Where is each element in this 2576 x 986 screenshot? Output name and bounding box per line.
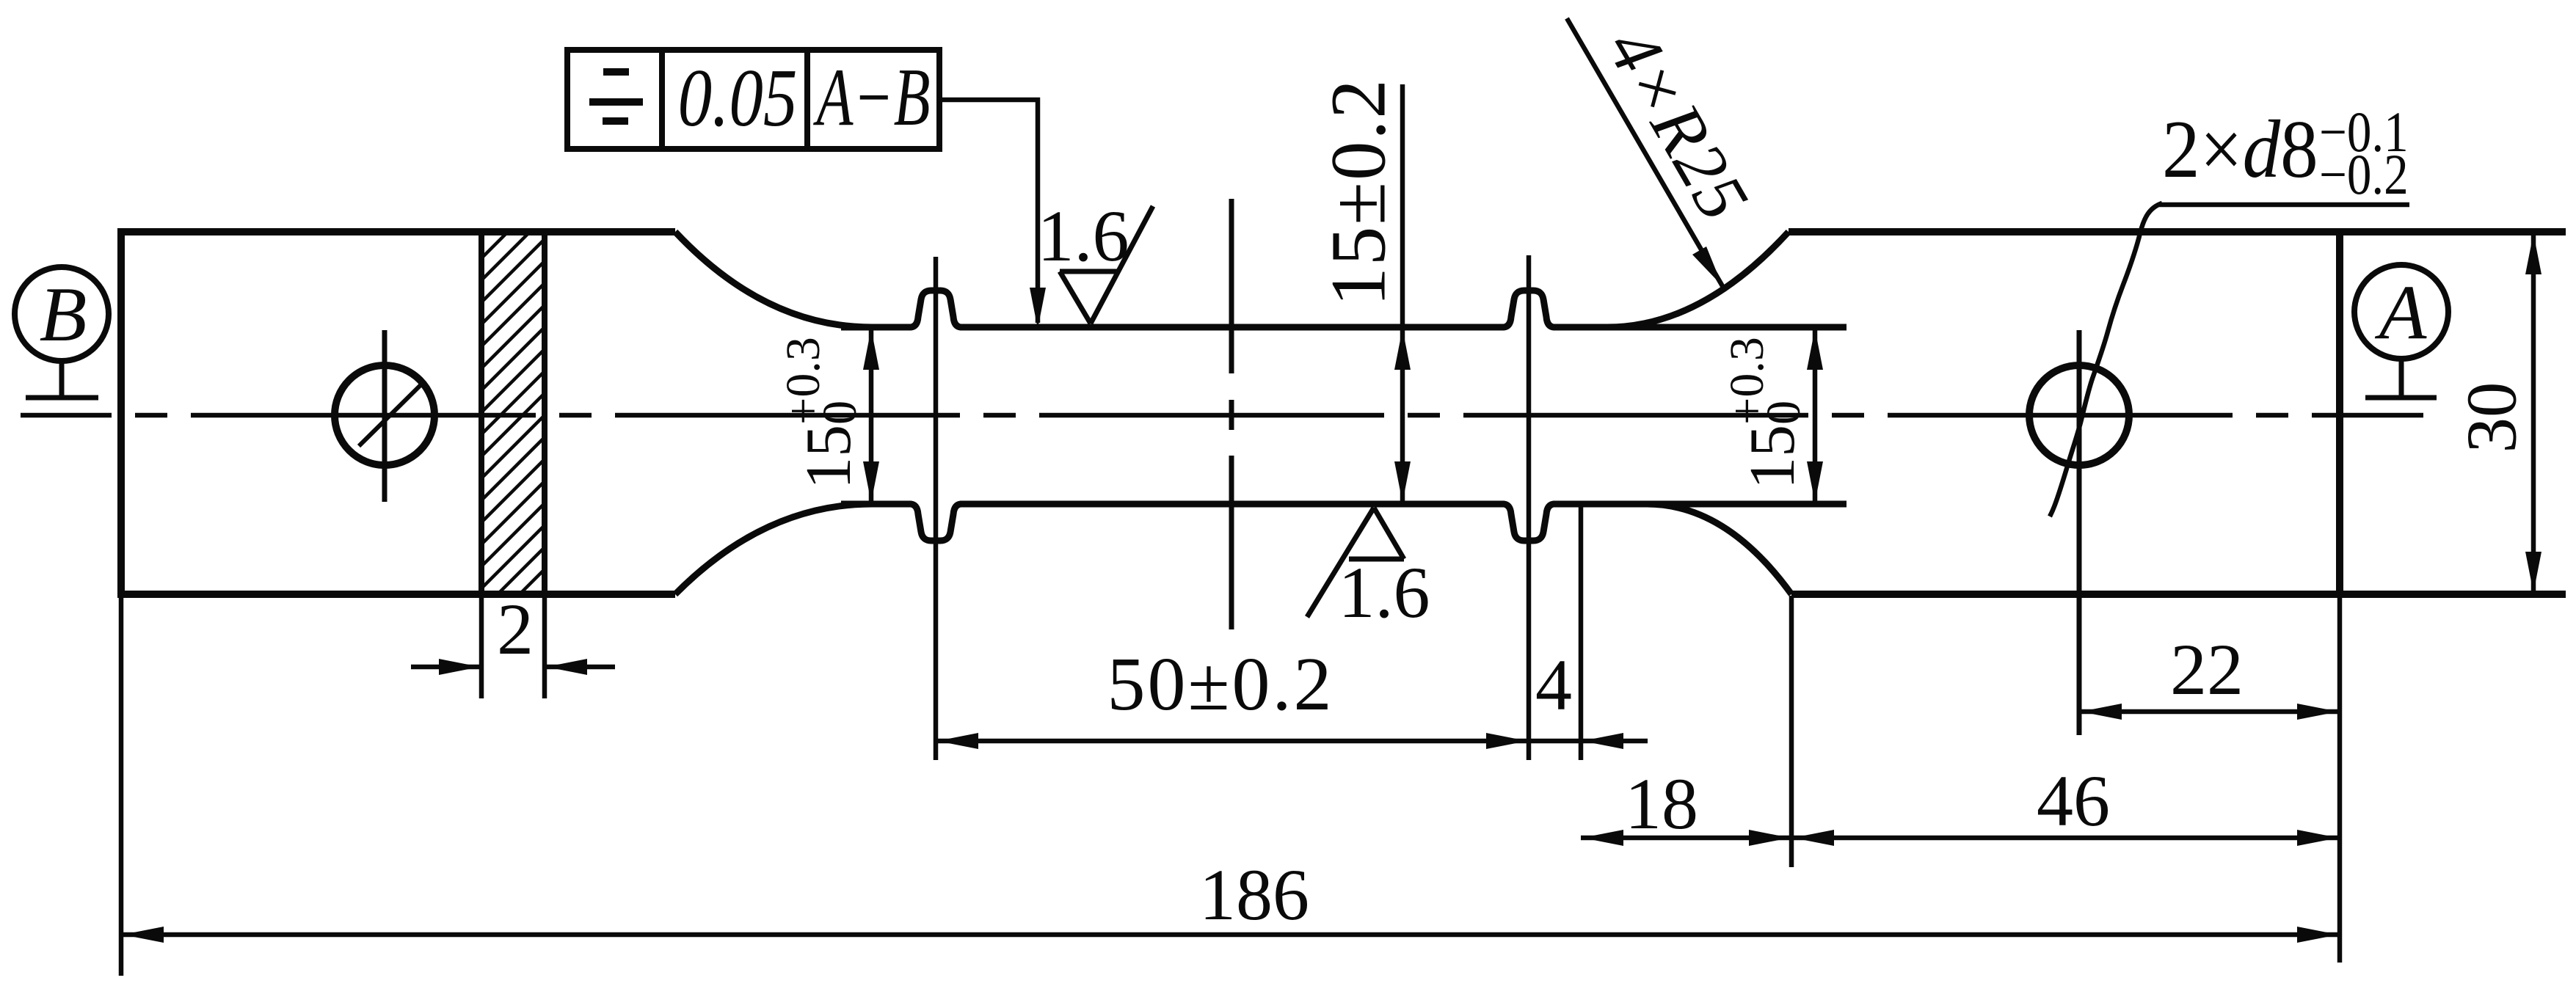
dimension text 4: [1535, 649, 1572, 722]
leader text 4×R25: [1595, 17, 1761, 233]
dimension text 15 +0.3/0 right: [1729, 337, 1805, 489]
surface roughness value 1.6 top: [1038, 200, 1129, 273]
dimension 2 extension lines: [479, 596, 484, 698]
dimension 15 +0.3/0 right line: [1813, 327, 1818, 504]
dimension text 30: [2456, 382, 2528, 453]
dimension text 18: [1625, 767, 1698, 841]
left hole diagonal mark: [359, 384, 421, 446]
dimension 50±0.2 line: [936, 739, 1529, 744]
left hole vertical centerline: [382, 330, 388, 502]
dimension 186 line: [121, 932, 2340, 938]
dimension text 2: [497, 593, 534, 666]
surface roughness value 1.6 bottom: [1339, 556, 1430, 629]
dimension text 15 +0.3/0 left: [785, 337, 862, 489]
datum label A: [2379, 274, 2427, 351]
dimension text 46: [2037, 764, 2110, 838]
horizontal centerline: [21, 413, 2423, 418]
datum B circle: [15, 267, 109, 361]
leader 2xd8 underline: [2159, 202, 2409, 208]
bottom surface finish symbol: [1307, 508, 1404, 617]
gauge top edge with extensometer ridges: [841, 291, 1847, 327]
extension line at gauge mark right (50 dim): [1527, 255, 1532, 760]
specimen outline: left grip: [121, 232, 675, 594]
FCF tolerance value 0.05: [678, 57, 798, 139]
dimension 30 line: [2531, 232, 2536, 594]
top-left fillet R25: [675, 232, 872, 327]
dimension 15±0.2 line: [1400, 84, 1405, 504]
datum A circle: [2354, 265, 2448, 359]
leader 4xR25: [1567, 18, 1722, 286]
dimension text 22: [2170, 633, 2244, 706]
dimension 2 arrows outside: [411, 665, 481, 670]
dimension text 50±0.2: [1107, 646, 1334, 723]
dimension text 15±0.2: [1320, 78, 1399, 306]
leader text 2×d8 with tolerances: [2162, 109, 2318, 191]
bottom-left fillet R25: [675, 504, 872, 594]
extension of left edge down: [119, 594, 124, 976]
vertical centerline at specimen middle: [1229, 199, 1234, 629]
gauge bottom edge with extensometer ridges: [841, 504, 1847, 541]
feature control frame box: [567, 50, 939, 149]
symmetry symbol: [589, 72, 643, 121]
dimension text 186: [1199, 858, 1309, 932]
leader 2xd8 wavy line through right hole: [2050, 203, 2162, 516]
datum A stem: [2399, 357, 2404, 398]
right hole d8: [2029, 365, 2129, 465]
top-right fillet R25: [1607, 232, 1789, 327]
FCF datum reference A-B: [816, 56, 930, 139]
datum B base bar: [26, 395, 98, 401]
extension line at grip step: [1789, 596, 1794, 867]
dimension 22 line: [2079, 709, 2340, 715]
datum label B: [40, 276, 87, 354]
extension line at gauge mark left (50 dim): [934, 257, 939, 760]
section hatch band boundaries: [481, 232, 545, 594]
left hole d8: [335, 365, 434, 465]
extension of right edge down: [2337, 594, 2343, 963]
extension line for 4 dim: [1579, 506, 1584, 760]
top surface finish symbol: [1060, 206, 1153, 324]
dimension 18 / 46 line: [1581, 836, 2340, 841]
datum A base bar: [2365, 395, 2437, 401]
right grip: [1789, 232, 2566, 594]
FCF leader to gauge top: [939, 100, 1038, 323]
bottom-right fillet R25: [1647, 504, 1791, 594]
dimension 4 line with outside arrow: [1529, 739, 1648, 744]
right hole vertical centerline / extension for 22: [2077, 330, 2082, 735]
datum B stem: [59, 359, 65, 398]
dimension 15 +0.3/0 left line: [869, 327, 874, 504]
